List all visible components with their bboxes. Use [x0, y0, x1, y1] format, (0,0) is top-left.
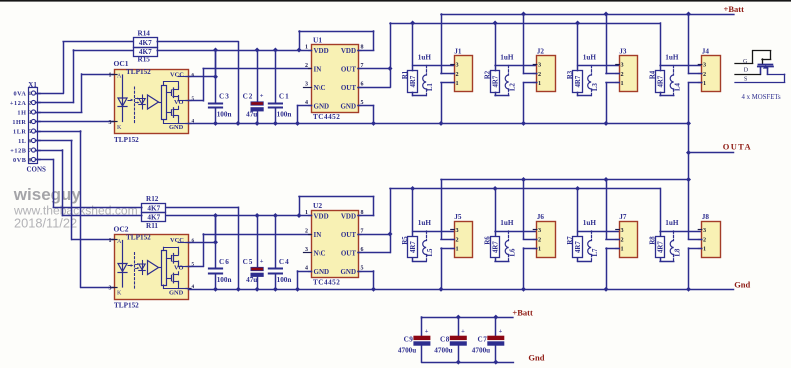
svg-text:N\C: N\C: [314, 84, 326, 92]
wire C5 leads: [257, 216, 259, 290]
svg-text:1: 1: [29, 91, 32, 97]
node +Batt J4: [686, 12, 691, 17]
wire gate branch: [660, 23, 702, 71]
svg-text:N\C: N\C: [314, 250, 326, 258]
node gnd-C1: [273, 121, 278, 126]
node gate J3: [575, 21, 580, 26]
node gnd-C3: [213, 121, 218, 126]
svg-text:+: +: [260, 93, 264, 100]
svg-text:C3: C3: [219, 93, 230, 101]
wire R12 to ground rail: [166, 207, 239, 289]
svg-text:K: K: [117, 125, 122, 131]
resistor R12: [142, 195, 166, 213]
node drain J7: [604, 177, 609, 182]
wire drain: [524, 180, 537, 240]
svg-text:R6: R6: [484, 236, 491, 245]
svg-text:R7: R7: [567, 236, 574, 245]
node src J6: [521, 287, 526, 292]
wire X1 pin5 to OC2 cathode: [36, 131, 115, 288]
svg-text:+12A: +12A: [10, 100, 27, 107]
node R14-rail junction: [236, 121, 241, 126]
capacitor C7 4700u polarized: [472, 317, 504, 362]
svg-text:4K7: 4K7: [147, 214, 160, 222]
svg-text:1H: 1H: [17, 109, 26, 116]
connector J4: [698, 48, 720, 92]
svg-text:G: G: [743, 59, 748, 65]
wire gate branch: [413, 189, 455, 237]
node VDD-U1 pin1: [297, 48, 302, 53]
wire C2 leads: [257, 50, 259, 123]
svg-text:4K7: 4K7: [139, 39, 152, 47]
svg-text:5: 5: [361, 266, 364, 272]
wire source: [524, 83, 537, 124]
wire drain: [606, 180, 619, 240]
connector J6: [533, 213, 555, 258]
svg-text:2: 2: [456, 71, 459, 78]
svg-text:U1: U1: [313, 36, 322, 45]
wire +Batt rail: [441, 14, 734, 16]
wire gate branch: [495, 23, 537, 71]
svg-text:Gnd: Gnd: [528, 352, 544, 362]
capacitor C1 100n: [269, 93, 292, 119]
resistor R5 4R7: [402, 236, 426, 262]
svg-text:3: 3: [703, 62, 706, 69]
wire C3 leads: [215, 50, 217, 123]
wire U1 OUT join: [358, 23, 391, 88]
node capbank B C7: [493, 315, 498, 320]
wire VDD rail: [157, 50, 299, 52]
wire drain: [524, 14, 537, 74]
svg-text:S: S: [744, 77, 747, 83]
wire gate branch: [660, 189, 702, 237]
svg-text:6: 6: [29, 139, 32, 145]
svg-text:+Batt: +Batt: [512, 307, 533, 317]
connector J8: [698, 213, 720, 258]
svg-text:J5: J5: [454, 213, 462, 221]
svg-text:J7: J7: [619, 213, 627, 221]
wire gate branch: [578, 23, 620, 71]
svg-text:TLP152: TLP152: [114, 302, 139, 310]
svg-text:TC4452: TC4452: [313, 279, 340, 287]
svg-text:C1: C1: [279, 93, 290, 101]
wire drain rail lower: [441, 179, 689, 181]
wire OC2 VCC to rail: [189, 216, 216, 243]
svg-text:GND: GND: [169, 290, 184, 297]
node VDD-C1: [273, 48, 278, 53]
svg-text:OUT: OUT: [341, 84, 357, 92]
node gnd-U1 pin4: [295, 121, 300, 126]
resistor R11: [142, 213, 166, 230]
svg-text:4: 4: [305, 266, 308, 272]
node gnd2-C6: [213, 287, 218, 292]
node gnd2-C4: [273, 287, 278, 292]
node OC2 VCC tap: [213, 240, 218, 245]
svg-text:J1: J1: [454, 48, 462, 56]
svg-text:1: 1: [703, 80, 706, 87]
svg-text:2: 2: [621, 71, 624, 78]
svg-text:4 x MOSFETs: 4 x MOSFETs: [742, 94, 782, 101]
svg-text:GND: GND: [314, 103, 330, 111]
svg-text:1: 1: [621, 80, 624, 87]
wire C1 leads: [275, 50, 277, 123]
svg-text:2: 2: [538, 236, 541, 243]
capacitor C9 4700u polarized: [398, 317, 430, 362]
node capbank B C8: [456, 315, 461, 320]
node gnd-C2: [255, 121, 260, 126]
wire X1 pin8 to R12: [36, 160, 142, 208]
wire OC1 VO to U1 IN: [189, 69, 312, 101]
connector J1: [451, 48, 473, 92]
svg-text:R1: R1: [402, 70, 409, 79]
wire X1 pin4 to OC1 cathode: [36, 121, 115, 123]
node drain J6: [521, 177, 526, 182]
svg-text:1: 1: [703, 246, 706, 253]
wire U2 pin1: [299, 215, 312, 217]
wire gate branch: [578, 189, 620, 237]
svg-text:L2: L2: [509, 82, 516, 91]
wire X1 pin7 to R11: [36, 150, 142, 216]
resistor R8 4R7: [649, 236, 673, 262]
svg-text:L8: L8: [674, 248, 681, 257]
svg-text:1uH: 1uH: [583, 54, 597, 62]
svg-text:VDD: VDD: [314, 47, 329, 55]
svg-text:3: 3: [703, 227, 706, 234]
svg-text:GND: GND: [340, 103, 356, 111]
svg-text:8: 8: [361, 45, 364, 51]
svg-text:4R7: 4R7: [658, 75, 665, 87]
connector J7: [616, 213, 638, 258]
wire OUTA vertical: [688, 123, 690, 179]
svg-text:3: 3: [109, 120, 112, 126]
capacitor C8 4700u polarized: [434, 317, 466, 362]
wire X1 pin3 to OC1 anode: [36, 74, 115, 113]
svg-text:OUT: OUT: [341, 66, 357, 74]
wire source: [441, 83, 454, 124]
svg-text:L3: L3: [592, 82, 599, 91]
svg-text:R14: R14: [138, 29, 151, 37]
wire source: [689, 248, 702, 289]
svg-text:1uH: 1uH: [583, 219, 597, 227]
svg-text:1LR: 1LR: [13, 128, 27, 135]
mosfet legend icon: [735, 51, 785, 83]
wire U2 pin4: [298, 271, 312, 289]
node capbank G C7: [493, 360, 498, 365]
svg-text:+Batt: +Batt: [724, 4, 745, 14]
node gate J1: [410, 21, 415, 26]
wire OC1 VCC to rail: [189, 50, 216, 77]
svg-text:100n: 100n: [277, 276, 292, 284]
svg-text:+: +: [425, 328, 429, 335]
svg-text:C9: C9: [404, 336, 414, 344]
svg-text:R12: R12: [146, 195, 159, 203]
opto-coupler OC1 TLP152: [109, 59, 195, 144]
node OUTA rail end: [686, 121, 691, 126]
svg-text:2018/11/22: 2018/11/22: [14, 216, 77, 231]
svg-text:L1: L1: [427, 82, 434, 91]
svg-text:R8: R8: [649, 236, 656, 245]
connector J2: [533, 48, 555, 92]
svg-text:2: 2: [703, 71, 706, 78]
wire X1 pin6 to OC2 anode: [36, 141, 115, 240]
wire U2 VDD top-hat: [299, 197, 374, 216]
svg-text:1: 1: [621, 246, 624, 253]
svg-text:5: 5: [29, 129, 32, 135]
svg-text:4R7: 4R7: [410, 241, 417, 253]
svg-text:L7: L7: [592, 248, 599, 257]
svg-text:2: 2: [305, 229, 308, 235]
svg-text:1uH: 1uH: [500, 54, 514, 62]
svg-text:R2: R2: [484, 70, 491, 79]
svg-text:R4: R4: [649, 70, 656, 79]
driver IC U2 TC4452: [304, 201, 364, 287]
svg-text:1: 1: [109, 238, 112, 244]
node gnd2-C5: [255, 287, 260, 292]
svg-text:OC2: OC2: [114, 225, 129, 234]
wire VDD2 rail: [166, 215, 299, 217]
inductor L7 1uH: [583, 219, 599, 261]
node R12-rail junction: [236, 287, 241, 292]
svg-text:47u: 47u: [246, 276, 257, 284]
svg-text:4R7: 4R7: [575, 75, 582, 87]
svg-text:2: 2: [703, 236, 706, 243]
wire source: [606, 248, 619, 289]
wire R14 to ground rail: [157, 42, 238, 124]
capacitor C2 47u polarized: [243, 93, 264, 119]
svg-text:CONS: CONS: [27, 166, 47, 174]
wire source: [689, 83, 702, 124]
node VDD2-C6: [213, 213, 218, 218]
svg-text:A: A: [117, 239, 122, 245]
top window border: [0, 0, 791, 2]
inductor L6 1uH: [500, 219, 516, 261]
node gnd2-U2 pin4: [295, 287, 300, 292]
svg-text:C4: C4: [279, 258, 290, 266]
svg-text:3: 3: [305, 82, 308, 88]
wire U2 pin5: [358, 271, 374, 289]
svg-text:1uH: 1uH: [418, 54, 432, 62]
inductor L8 1uH: [665, 219, 681, 261]
svg-text:C6: C6: [219, 258, 230, 266]
svg-text:2: 2: [456, 236, 459, 243]
wire C6 leads: [215, 216, 217, 290]
wire X1 pin2 to R15: [36, 50, 134, 103]
node src J2: [521, 121, 526, 126]
wire U1 pin4: [298, 106, 312, 124]
svg-text:R15: R15: [138, 56, 151, 64]
inductor L1 1uH: [418, 54, 434, 96]
svg-text:GND: GND: [314, 268, 330, 276]
wire U2 OUT join: [358, 189, 391, 253]
svg-text:4R7: 4R7: [493, 75, 500, 87]
svg-text:+: +: [260, 258, 264, 265]
svg-text:1: 1: [109, 73, 112, 79]
opto-coupler OC2 TLP152: [109, 225, 195, 310]
node drain OUTA: [686, 177, 691, 182]
svg-text:OUTA: OUTA: [723, 142, 752, 152]
svg-text:TLP152: TLP152: [126, 68, 151, 76]
svg-text:4700u: 4700u: [434, 346, 452, 354]
wire drain: [689, 14, 702, 74]
svg-text:J6: J6: [537, 213, 545, 221]
svg-text:3: 3: [109, 286, 112, 292]
svg-text:GND: GND: [169, 124, 184, 131]
svg-text:C8: C8: [440, 336, 450, 344]
svg-text:1: 1: [538, 246, 541, 253]
node U2 OUT: [388, 232, 393, 237]
svg-text:1L: 1L: [18, 138, 26, 145]
wire C4 leads: [275, 216, 277, 290]
capacitor C4 100n: [269, 258, 292, 284]
capacitor C6 100n: [209, 258, 232, 284]
node +Batt J2: [521, 12, 526, 17]
svg-text:R11: R11: [146, 222, 158, 230]
svg-text:IN: IN: [314, 231, 322, 239]
wire source: [606, 83, 619, 124]
svg-text:L5: L5: [427, 248, 434, 257]
svg-text:OC1: OC1: [114, 59, 129, 68]
svg-text:J3: J3: [619, 48, 627, 56]
svg-text:3: 3: [29, 110, 32, 116]
svg-text:1uH: 1uH: [665, 54, 679, 62]
node VDD2-C4: [273, 213, 278, 218]
svg-text:100n: 100n: [217, 111, 232, 119]
svg-text:3: 3: [538, 227, 541, 234]
node gate J5: [410, 186, 415, 191]
node VDD2-U2 pin1: [297, 213, 302, 218]
svg-text:R3: R3: [567, 70, 574, 79]
svg-text:TLP152: TLP152: [126, 234, 151, 242]
watermark wiseguy: [13, 185, 138, 231]
svg-text:J4: J4: [702, 48, 710, 56]
svg-text:J8: J8: [702, 213, 710, 221]
node OUTA tap: [686, 150, 691, 155]
node VDD2-C5: [255, 213, 260, 218]
svg-text:VDD: VDD: [341, 47, 356, 55]
svg-text:4K7: 4K7: [147, 205, 160, 213]
svg-text:0VA: 0VA: [13, 90, 26, 97]
svg-text:L4: L4: [674, 82, 681, 91]
wire source: [524, 248, 537, 289]
wire gate rail lower: [390, 188, 660, 190]
resistor R3 4R7: [567, 70, 591, 95]
svg-text:L6: L6: [509, 248, 516, 257]
svg-text:GND: GND: [340, 268, 356, 276]
svg-text:4R7: 4R7: [410, 75, 417, 87]
svg-text:2: 2: [621, 236, 624, 243]
svg-text:+12B: +12B: [10, 147, 26, 154]
inductor L2 1uH: [500, 54, 516, 96]
node src J5: [439, 287, 444, 292]
node U1 OUT: [388, 66, 393, 71]
wire bottom ground rail Gnd: [189, 289, 734, 291]
svg-text:1uH: 1uH: [418, 219, 432, 227]
svg-text:4: 4: [29, 120, 32, 126]
wire OUTA: [689, 152, 734, 154]
svg-text:J2: J2: [537, 48, 545, 56]
wire gate rail: [390, 23, 660, 25]
svg-text:OUT: OUT: [341, 250, 357, 258]
wire +Batt cap rail: [422, 316, 513, 319]
resistor R14: [134, 29, 158, 47]
svg-text:3: 3: [621, 62, 624, 69]
svg-text:VDD: VDD: [314, 213, 329, 221]
resistor R4 4R7: [649, 70, 673, 95]
inductor L4 1uH: [665, 54, 681, 96]
inductor L3 1uH: [583, 54, 599, 96]
resistor R1 4R7: [402, 70, 426, 95]
svg-text:4700u: 4700u: [398, 346, 416, 354]
svg-text:C5: C5: [243, 258, 254, 266]
capacitor C3 100n: [209, 93, 232, 119]
svg-text:A: A: [117, 73, 122, 79]
driver IC U1 TC4452: [304, 36, 364, 122]
wire U1 pin1: [299, 50, 312, 52]
svg-text:3: 3: [538, 62, 541, 69]
node src J1: [439, 121, 444, 126]
svg-text:1: 1: [456, 246, 459, 253]
wire U1 pin5: [358, 106, 374, 124]
wire drain: [689, 180, 702, 240]
connector X1: [27, 81, 47, 174]
resistor R2 4R7: [484, 70, 508, 95]
node src J3: [604, 121, 609, 126]
wire X1 pin1 to R14: [36, 42, 134, 94]
resistor R15: [134, 48, 158, 64]
wire OC2 VO to U2 IN: [189, 234, 312, 267]
wire source: [441, 248, 454, 289]
connector J5: [451, 213, 473, 258]
svg-text:2: 2: [29, 101, 32, 107]
wire U1 VDD top-hat: [299, 31, 374, 51]
capacitor C5 47u polarized: [243, 258, 264, 284]
svg-text:100n: 100n: [277, 111, 292, 119]
node OC1 VCC tap: [213, 74, 218, 79]
svg-text:100n: 100n: [217, 276, 232, 284]
node +Batt J3: [604, 12, 609, 17]
svg-text:Gnd: Gnd: [734, 279, 750, 289]
svg-text:4R7: 4R7: [658, 241, 665, 253]
node gate J7: [575, 186, 580, 191]
wire top ground rail: [189, 123, 689, 125]
svg-text:1: 1: [456, 80, 459, 87]
node src J7: [604, 287, 609, 292]
svg-text:C7: C7: [478, 336, 488, 344]
svg-text:3: 3: [456, 227, 459, 234]
svg-text:3: 3: [456, 62, 459, 69]
svg-text:TC4452: TC4452: [313, 113, 340, 121]
svg-text:TLP152: TLP152: [114, 136, 139, 144]
svg-text:1: 1: [305, 45, 308, 51]
wire drain: [441, 14, 454, 74]
svg-text:1: 1: [538, 80, 541, 87]
svg-text:6: 6: [361, 82, 364, 88]
svg-text:C2: C2: [243, 93, 254, 101]
svg-text:R5: R5: [402, 236, 409, 245]
resistor R6 4R7: [484, 236, 508, 262]
svg-text:0VB: 0VB: [13, 157, 27, 164]
svg-text:U2: U2: [313, 201, 322, 210]
wire gate branch: [413, 23, 455, 71]
wire drain: [441, 180, 454, 240]
node VDD-C2: [255, 48, 260, 53]
node gate J6: [493, 186, 498, 191]
svg-text:VCC: VCC: [170, 72, 184, 79]
inductor L5 1uH: [418, 219, 434, 261]
svg-text:VDD: VDD: [341, 213, 356, 221]
wire Gnd cap rail: [422, 362, 514, 364]
svg-text:K: K: [117, 291, 122, 297]
svg-text:1HR: 1HR: [12, 119, 26, 126]
